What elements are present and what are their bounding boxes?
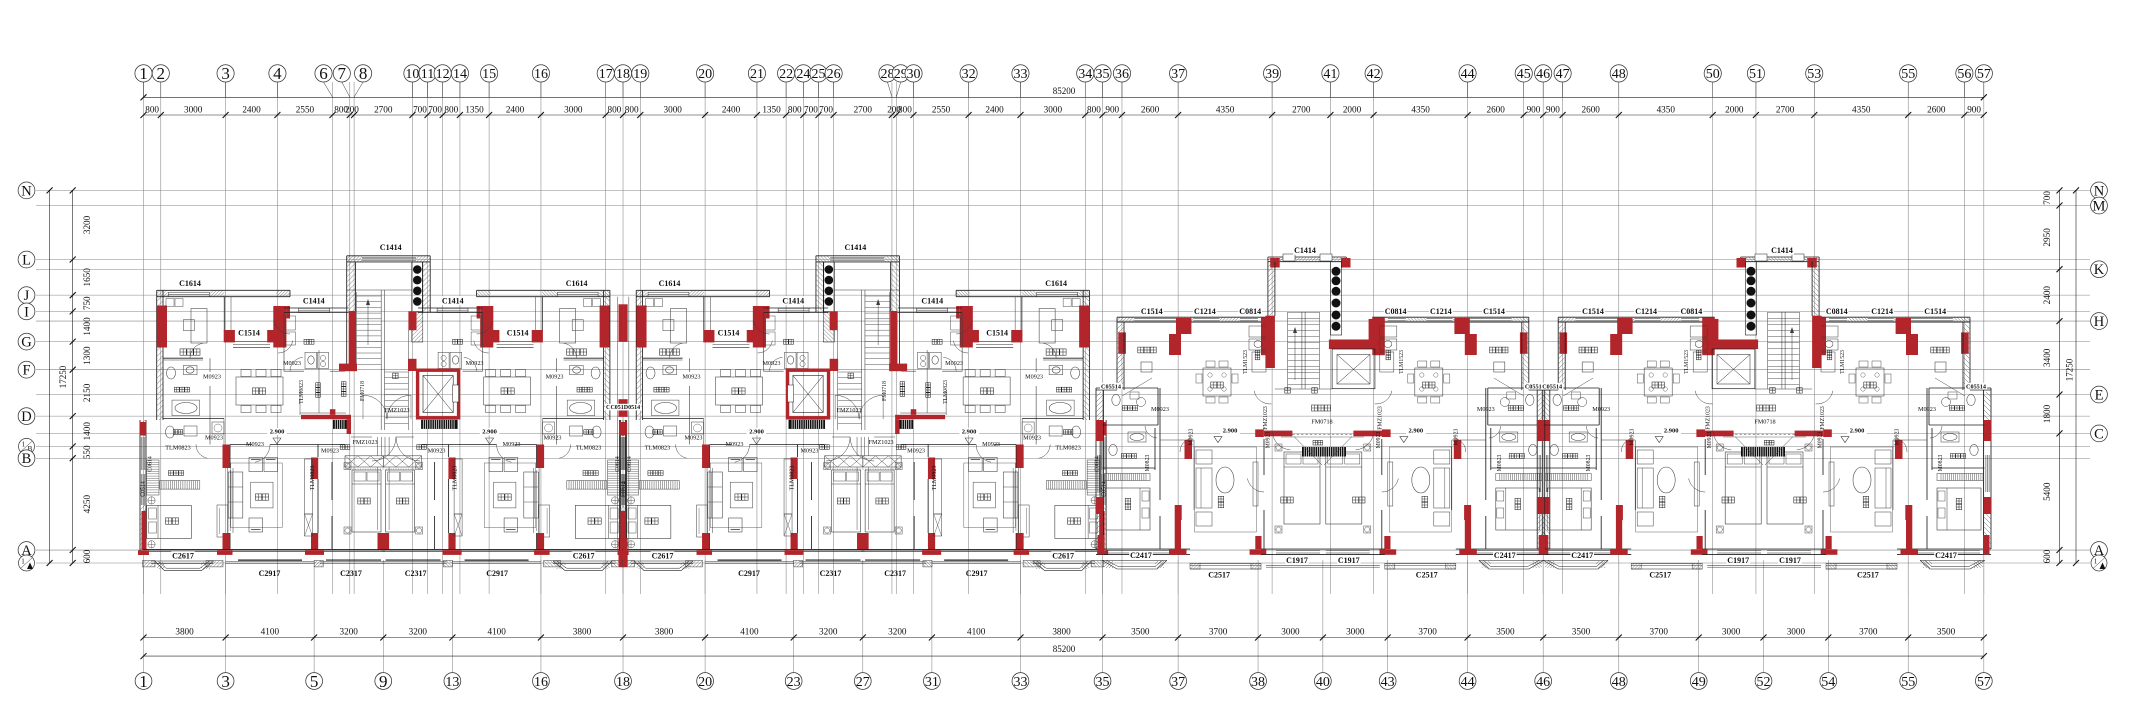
room label wardrobe [1046, 349, 1066, 355]
svg-text:FMZ1023: FMZ1023 [384, 407, 409, 414]
svg-text:C1917: C1917 [1338, 556, 1360, 565]
svg-text:35: 35 [1096, 675, 1110, 690]
svg-text:54: 54 [1821, 675, 1835, 690]
svg-text:1650: 1650 [82, 268, 92, 287]
label C051D0514 party [610, 404, 641, 411]
svg-text:3200: 3200 [819, 626, 838, 636]
label C1414 core C [1770, 246, 1794, 255]
svg-text:3000: 3000 [664, 104, 683, 114]
room label living [255, 494, 268, 500]
svg-text:8: 8 [359, 64, 368, 83]
svg-text:M0923: M0923 [801, 448, 819, 455]
svg-text:24: 24 [796, 67, 810, 82]
svg-text:2600: 2600 [1927, 104, 1946, 114]
svg-text:C2617: C2617 [573, 551, 595, 560]
svg-text:C2317: C2317 [884, 569, 906, 578]
svg-text:M0923: M0923 [1592, 406, 1610, 413]
svg-text:5400: 5400 [2042, 482, 2052, 501]
svg-text:43: 43 [1381, 675, 1395, 690]
svg-text:2400: 2400 [242, 104, 261, 114]
svg-text:7: 7 [338, 64, 347, 83]
svg-text:TLM1523: TLM1523 [1684, 350, 1690, 374]
svg-text:M0923: M0923 [683, 374, 701, 381]
label C1414 core C [1293, 246, 1317, 255]
svg-text:18: 18 [616, 67, 630, 82]
level label 2.900 [480, 428, 500, 435]
svg-text:C1514: C1514 [1924, 307, 1946, 316]
room label bedroom C left [1566, 498, 1572, 509]
svg-text:2.900: 2.900 [482, 429, 497, 436]
svg-text:800: 800 [898, 104, 912, 114]
label C051D0514 party [605, 404, 636, 411]
svg-text:800: 800 [625, 104, 639, 114]
room label dining C [1864, 382, 1876, 388]
label C1414 stair bump [844, 243, 868, 252]
level label 2.900 [267, 428, 287, 435]
svg-text:M: M [2093, 199, 2106, 215]
svg-text:3700: 3700 [1418, 626, 1437, 636]
svg-text:3: 3 [221, 672, 230, 691]
svg-text:C1917: C1917 [1727, 556, 1749, 565]
svg-text:FMZ1023: FMZ1023 [1820, 406, 1826, 430]
svg-text:C0614: C0614 [1095, 456, 1101, 472]
svg-text:2700: 2700 [1776, 104, 1795, 114]
svg-text:C1414: C1414 [303, 296, 325, 305]
svg-text:C1214: C1214 [1430, 307, 1452, 316]
label C05514 left edge [1965, 383, 1987, 390]
svg-text:3400: 3400 [2042, 348, 2052, 367]
svg-text:C0614: C0614 [627, 456, 633, 472]
room label master bedroom [588, 518, 601, 524]
svg-text:2.900: 2.900 [962, 429, 977, 436]
svg-text:C2417: C2417 [1494, 551, 1516, 560]
room label bathroom C1 [1508, 406, 1523, 411]
svg-text:53: 53 [1807, 67, 1821, 82]
svg-text:M0923: M0923 [1025, 374, 1043, 381]
label C0814 top [1825, 307, 1849, 316]
svg-text:800: 800 [788, 104, 802, 114]
svg-text:C1614: C1614 [566, 279, 588, 288]
room label living C [1218, 496, 1224, 507]
label C1514 [506, 328, 530, 337]
svg-text:M0923: M0923 [726, 441, 744, 448]
svg-text:3700: 3700 [1859, 626, 1878, 636]
svg-text:4100: 4100 [740, 626, 759, 636]
svg-text:3500: 3500 [1496, 626, 1515, 636]
svg-text:C1414: C1414 [1294, 246, 1316, 255]
svg-text:C2417: C2417 [1935, 551, 1957, 560]
label C2617 [171, 551, 195, 560]
svg-text:3800: 3800 [175, 626, 194, 636]
svg-text:C2917: C2917 [966, 569, 988, 578]
svg-text:1350: 1350 [465, 104, 484, 114]
svg-text:C1514: C1514 [1582, 307, 1604, 316]
svg-text:41: 41 [1323, 67, 1337, 82]
svg-text:C2517: C2517 [1857, 570, 1879, 579]
room label bathroom C1 [1122, 406, 1137, 411]
svg-text:TLM0823: TLM0823 [1055, 445, 1080, 452]
room label bathroom C2 [1509, 454, 1524, 459]
svg-text:700: 700 [2042, 191, 2052, 205]
svg-text:85200: 85200 [1053, 86, 1076, 96]
svg-text:B: B [22, 451, 32, 467]
svg-text:57: 57 [1977, 675, 1991, 690]
svg-text:M0923: M0923 [544, 435, 562, 442]
module D units mirrored [1537, 254, 1991, 569]
svg-text:C05514: C05514 [1542, 383, 1562, 390]
svg-text:C051D0514: C051D0514 [610, 405, 640, 411]
label C1414 kitchen [441, 296, 465, 305]
svg-text:C: C [2094, 426, 2104, 442]
svg-text:M0923: M0923 [1453, 429, 1459, 446]
room label bathroom2 [653, 430, 663, 435]
svg-text:4350: 4350 [1852, 104, 1871, 114]
svg-text:4250: 4250 [82, 495, 92, 514]
svg-text:M0823: M0823 [1145, 455, 1151, 472]
label C05514 left edge [1524, 383, 1546, 390]
svg-text:22: 22 [779, 67, 793, 82]
svg-text:M0923: M0923 [1918, 406, 1936, 413]
label down stair C [1312, 388, 1318, 394]
svg-text:16: 16 [534, 67, 548, 82]
svg-text:17: 17 [599, 67, 613, 82]
svg-text:C2417: C2417 [1571, 551, 1593, 560]
svg-text:3800: 3800 [1052, 626, 1071, 636]
shaft label water [341, 382, 346, 397]
svg-text:M0923: M0923 [1189, 429, 1195, 446]
svg-text:C1414: C1414 [442, 296, 464, 305]
shaft label water [900, 382, 905, 397]
svg-text:2550: 2550 [296, 104, 315, 114]
label C1917 [1778, 556, 1802, 565]
room label wardrobe C [1579, 347, 1597, 353]
svg-text:18: 18 [616, 675, 630, 690]
level label 2.900 [959, 428, 979, 435]
svg-text:2.900: 2.900 [1223, 428, 1238, 435]
room label bedroom C mid [1281, 497, 1293, 503]
svg-text:C0814: C0814 [1826, 307, 1848, 316]
room label wardrobe lower [583, 471, 598, 476]
svg-text:700: 700 [413, 104, 427, 114]
svg-text:2950: 2950 [2042, 228, 2052, 247]
svg-text:3000: 3000 [1722, 626, 1741, 636]
svg-text:M0923: M0923 [321, 448, 339, 455]
label C1414 kitchen [921, 296, 945, 305]
top segment dimension line [144, 114, 1984, 116]
svg-text:3000: 3000 [184, 104, 203, 114]
svg-text:25: 25 [812, 67, 826, 82]
room label kitchen [932, 339, 942, 344]
svg-text:3000: 3000 [1787, 626, 1806, 636]
room label dining [981, 388, 994, 394]
room label bathroom [577, 387, 592, 392]
label C1214 top [1429, 307, 1453, 316]
svg-text:40: 40 [1316, 675, 1330, 690]
svg-text:C0814: C0814 [1681, 307, 1703, 316]
svg-text:600: 600 [82, 549, 92, 563]
label C1414 stair bump [379, 243, 403, 252]
room label lift hall [1757, 405, 1776, 411]
svg-text:27: 27 [856, 675, 870, 690]
room label kitchen [453, 339, 463, 344]
label C1614 [565, 279, 589, 288]
room label middle bedroom [396, 498, 408, 504]
svg-text:C1514: C1514 [507, 328, 529, 337]
svg-text:26: 26 [827, 67, 841, 82]
svg-text:M0923: M0923 [907, 448, 925, 455]
svg-text:C1614: C1614 [659, 279, 681, 288]
label C2617 [651, 551, 675, 560]
label C1514 top [1140, 307, 1164, 316]
svg-text:34: 34 [1078, 67, 1092, 82]
svg-text:C2517: C2517 [1416, 570, 1438, 579]
room label master bedroom [1068, 518, 1081, 524]
svg-text:2.900: 2.900 [1850, 428, 1865, 435]
svg-text:900: 900 [1105, 104, 1119, 114]
label C0814 top [1680, 307, 1704, 316]
label C2417 [1934, 551, 1958, 560]
room label dining [732, 388, 745, 394]
svg-text:10: 10 [405, 67, 419, 82]
room label hall [896, 445, 906, 450]
room label living [735, 494, 748, 500]
svg-text:C2917: C2917 [259, 569, 281, 578]
room label wardrobe [180, 349, 200, 355]
svg-text:2150: 2150 [82, 383, 92, 402]
svg-text:48: 48 [1612, 67, 1626, 82]
svg-text:G: G [21, 335, 32, 351]
svg-text:11: 11 [421, 67, 434, 82]
svg-text:49: 49 [1692, 675, 1706, 690]
room label middle bedroom [358, 498, 370, 504]
label C1917 [1337, 556, 1361, 565]
svg-text:M0823: M0823 [1497, 455, 1503, 472]
svg-text:37: 37 [1171, 675, 1185, 690]
svg-text:C1614: C1614 [179, 279, 201, 288]
label C1614 [1044, 279, 1068, 288]
svg-text:FMZ1023: FMZ1023 [1378, 406, 1384, 430]
room label wardrobe C [1490, 347, 1508, 353]
room label dining C [1211, 382, 1223, 388]
room label middle bedroom [837, 498, 849, 504]
svg-text:3200: 3200 [82, 215, 92, 234]
svg-text:TLM1523: TLM1523 [1840, 350, 1846, 374]
svg-text:1400: 1400 [82, 317, 92, 336]
svg-text:15: 15 [482, 67, 496, 82]
room label dining [501, 388, 514, 394]
label up stair C [1285, 388, 1291, 394]
svg-text:38: 38 [1251, 675, 1265, 690]
svg-text:1300: 1300 [82, 346, 92, 365]
room label bathroom2 [173, 430, 183, 435]
svg-text:2700: 2700 [374, 104, 393, 114]
svg-text:46: 46 [1536, 675, 1550, 690]
room label living C [1659, 496, 1665, 507]
svg-text:16: 16 [534, 675, 548, 690]
svg-text:C2317: C2317 [820, 569, 842, 578]
svg-text:800: 800 [1087, 104, 1101, 114]
svg-text:700: 700 [819, 104, 833, 114]
svg-text:C2617: C2617 [1052, 551, 1074, 560]
room label wardrobe lower [168, 471, 183, 476]
svg-text:9: 9 [379, 672, 388, 691]
storage room label [926, 383, 931, 398]
room label hall [417, 445, 427, 450]
room label bedroom C left [1125, 498, 1131, 509]
svg-text:46: 46 [1536, 67, 1550, 82]
module A units [138, 256, 629, 571]
svg-text:4: 4 [273, 64, 282, 83]
svg-text:1: 1 [2094, 557, 2098, 565]
svg-text:TLM0823: TLM0823 [576, 445, 601, 452]
room label living [978, 494, 991, 500]
room label lift hall [1312, 405, 1331, 411]
room label living C [1863, 496, 1869, 507]
svg-text:TLM0823: TLM0823 [310, 466, 316, 491]
svg-text:42: 42 [1367, 67, 1381, 82]
svg-text:39: 39 [1265, 67, 1279, 82]
svg-text:37: 37 [1171, 67, 1185, 82]
svg-text:14: 14 [453, 67, 467, 82]
svg-text:3500: 3500 [1572, 626, 1591, 636]
svg-text:M0923: M0923 [203, 374, 221, 381]
svg-text:M0923: M0923 [205, 435, 223, 442]
label C1514 [985, 328, 1009, 337]
svg-text:M0923: M0923 [945, 360, 963, 367]
svg-text:M0923: M0923 [1376, 432, 1382, 449]
svg-text:TLM0823: TLM0823 [790, 466, 796, 491]
svg-text:C1917: C1917 [1286, 556, 1308, 565]
svg-text:J: J [24, 288, 30, 304]
label C0814 top [1384, 307, 1408, 316]
label C05514 left edge [1100, 383, 1122, 390]
svg-text:M0823: M0823 [1586, 455, 1592, 472]
label C1514 [237, 328, 261, 337]
svg-text:1: 1 [139, 672, 148, 691]
vertical grid lines top axes [143, 82, 145, 594]
svg-text:N: N [21, 183, 32, 199]
room label wardrobe C [1931, 347, 1949, 353]
svg-text:TLM0823: TLM0823 [453, 466, 459, 491]
svg-text:3700: 3700 [1209, 626, 1228, 636]
svg-text:C1414: C1414 [782, 296, 804, 305]
svg-text:3800: 3800 [573, 626, 592, 636]
svg-text:32: 32 [962, 67, 976, 82]
label C1614 [658, 279, 682, 288]
bottom overall dimension line 85200 [144, 655, 1984, 657]
top overall dimension line 85200 [144, 96, 1984, 98]
svg-text:L: L [22, 252, 31, 268]
label C1514 top [1482, 307, 1506, 316]
label down stair [393, 373, 399, 379]
svg-text:2.900: 2.900 [1408, 428, 1423, 435]
svg-text:TLM1523: TLM1523 [1243, 350, 1249, 374]
right total dimension line 17250 [2075, 190, 2077, 563]
svg-text:C1414: C1414 [1771, 246, 1793, 255]
svg-text:FMZ1023: FMZ1023 [869, 439, 894, 446]
svg-text:44: 44 [1461, 67, 1475, 82]
svg-text:48: 48 [1612, 675, 1626, 690]
room label hall [820, 445, 830, 450]
svg-text:C05514: C05514 [1101, 383, 1121, 390]
svg-text:4100: 4100 [261, 626, 280, 636]
svg-text:C1414: C1414 [921, 296, 943, 305]
label C1614 [178, 279, 202, 288]
bottom segment dimension line [144, 637, 1984, 639]
svg-text:C2517: C2517 [1208, 570, 1230, 579]
svg-text:C0514: C0514 [141, 481, 147, 497]
svg-text:20: 20 [698, 675, 712, 690]
svg-text:17250: 17250 [58, 365, 68, 388]
svg-text:1: 1 [139, 64, 148, 83]
right segment dimension line [2059, 190, 2061, 563]
top grid bubbles [143, 82, 145, 97]
horizontal grid lines letter axes [36, 189, 2090, 191]
room label kitchen [784, 339, 794, 344]
svg-text:TLM0823: TLM0823 [943, 380, 949, 404]
svg-text:3500: 3500 [1131, 626, 1150, 636]
svg-text:TLM0823: TLM0823 [932, 466, 938, 491]
room label bathroom [654, 387, 669, 392]
svg-text:3: 3 [221, 64, 230, 83]
svg-text:C0614: C0614 [148, 456, 154, 472]
room label bathroom2 [1063, 430, 1073, 435]
label C1917 [1726, 556, 1750, 565]
svg-text:M0923: M0923 [503, 441, 521, 448]
svg-text:M0923: M0923 [246, 441, 264, 448]
svg-text:M0923: M0923 [1266, 432, 1272, 449]
label C1414 kitchen [782, 296, 806, 305]
label C1514 [717, 328, 741, 337]
left letter bubbles [18, 182, 35, 199]
svg-text:1: 1 [21, 557, 25, 565]
svg-text:23: 23 [787, 675, 801, 690]
svg-text:C1414: C1414 [380, 243, 402, 252]
room label dining C [1423, 382, 1435, 388]
svg-text:C1214: C1214 [1635, 307, 1657, 316]
bottom grid bubbles [135, 673, 152, 690]
svg-text:56: 56 [1957, 67, 1971, 82]
svg-text:2.900: 2.900 [270, 429, 285, 436]
svg-text:M0923: M0923 [428, 448, 446, 455]
svg-text:900: 900 [1527, 104, 1541, 114]
svg-text:51: 51 [1749, 67, 1763, 82]
svg-text:55: 55 [1901, 67, 1915, 82]
svg-text:4350: 4350 [1216, 104, 1235, 114]
room label hall [340, 445, 350, 450]
room label bathroom C1 [1949, 406, 1964, 411]
svg-text:FMZ1023: FMZ1023 [837, 407, 862, 414]
room label wardrobe [660, 349, 680, 355]
svg-text:C1214: C1214 [1194, 307, 1216, 316]
svg-text:C1514: C1514 [238, 328, 260, 337]
label down stair [848, 373, 854, 379]
svg-text:550: 550 [82, 445, 92, 459]
room label wardrobe [567, 349, 587, 355]
svg-text:FM0718: FM0718 [882, 381, 888, 401]
svg-text:13: 13 [445, 675, 459, 690]
svg-text:750: 750 [82, 296, 92, 310]
svg-text:2000: 2000 [1725, 104, 1744, 114]
svg-text:2600: 2600 [1486, 104, 1505, 114]
svg-text:3000: 3000 [1346, 626, 1365, 636]
svg-text:C2417: C2417 [1130, 551, 1152, 560]
svg-text:C1214: C1214 [1871, 307, 1893, 316]
svg-text:2: 2 [157, 64, 166, 83]
svg-text:FM0718: FM0718 [360, 381, 366, 401]
left segment dimension line [72, 190, 74, 563]
label C2617 [572, 551, 596, 560]
